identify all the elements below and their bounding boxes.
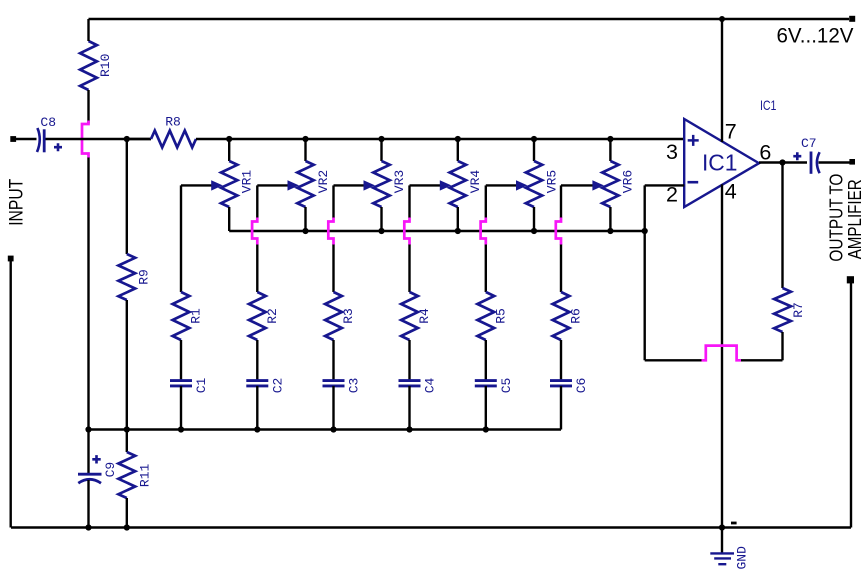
resistor R6 (553, 292, 570, 340)
svg-text:C1: C1 (194, 378, 209, 394)
wiper arrow VR2 (288, 180, 300, 190)
svg-text:R9: R9 (137, 269, 152, 285)
svg-text:VR1: VR1 (240, 170, 255, 194)
wire R1 to C1 (180, 340, 182, 380)
wire C4 to lower rail (408, 386, 410, 430)
resistor R5 (477, 292, 494, 340)
potentiometer VR2 (304, 139, 306, 161)
minus sign inverting input (688, 181, 699, 184)
plus sign of C7 (793, 152, 801, 160)
wire R4 to C4 (408, 340, 410, 380)
magenta hop over feedback bus at R6 column (556, 218, 561, 245)
node feedback bus / inverting column junction (642, 228, 648, 234)
wire R6 to C6 (560, 340, 562, 380)
svg-text:C7: C7 (801, 136, 817, 151)
wire lower rail under RC chains (89, 428, 562, 431)
ground symbol (721, 528, 723, 553)
svg-text:IC1: IC1 (702, 150, 738, 176)
wire C6 to lower rail (560, 386, 562, 430)
resistor R8 (127, 138, 151, 140)
node input line / VR4 top (455, 136, 461, 142)
magenta hop over feedback bus at R4 column (404, 218, 409, 245)
svg-text:4: 4 (725, 180, 737, 204)
magenta hop over pin 4 line on feedback wire (702, 346, 742, 361)
capacitor C3 (323, 379, 345, 382)
capacitor C6 (550, 379, 572, 382)
svg-text:AMPLIFIER: AMPLIFIER (844, 179, 865, 259)
svg-text:3: 3 (666, 140, 678, 164)
potentiometer VR4 (457, 139, 459, 161)
node ground rail / R11 (124, 524, 130, 530)
wiper arrow VR3 (364, 180, 376, 190)
magenta hop over input line at R10 column (82, 121, 89, 158)
resistor R7 (781, 163, 783, 289)
node ground rail / C9 (85, 524, 91, 530)
node feedback bus / VR6 bottom (607, 228, 613, 234)
node lower rail junction (406, 426, 412, 432)
node lower rail junction (254, 426, 260, 432)
output ground terminal (847, 276, 854, 283)
wiper wire VR6 (561, 184, 595, 186)
output terminal (849, 159, 855, 165)
wire input lead (13, 138, 36, 140)
node input line / VR2 top (302, 136, 308, 142)
svg-text:C3: C3 (347, 378, 362, 394)
wire C8 to R9 node (46, 138, 152, 140)
node top rail / pin 7 junction (719, 16, 725, 22)
capacitor C8 (37, 128, 40, 152)
svg-text:GND: GND (734, 546, 749, 570)
svg-text:VR4: VR4 (468, 170, 483, 194)
svg-text:7: 7 (725, 119, 737, 143)
wire bottom ground rail (11, 526, 851, 529)
wire pin 7 supply lead (721, 19, 723, 142)
svg-text:C9: C9 (103, 462, 118, 478)
node input line / VR3 top (378, 136, 384, 142)
plus sign of C9 (92, 455, 100, 463)
wire top supply rail (89, 18, 850, 21)
plus sign non-inverting input (688, 135, 699, 146)
magenta hop over feedback bus at R3 column (328, 218, 333, 245)
wire VR1 wiper drop (180, 185, 182, 292)
svg-text:R5: R5 (493, 308, 508, 324)
resistor R9 (126, 139, 128, 254)
svg-text:R1: R1 (189, 308, 204, 324)
node input line / VR6 top (607, 136, 613, 142)
wire VR6 wiper drop (560, 185, 562, 218)
node feedback bus / VR3 bottom (378, 228, 384, 234)
svg-text:R3: R3 (341, 308, 356, 324)
magenta hop over feedback bus at R2 column (252, 218, 257, 245)
node feedback bus / VR4 bottom (455, 228, 461, 234)
magenta hop over feedback bus at R5 column (481, 218, 486, 245)
wire C3 to lower rail (332, 386, 334, 430)
wire C7 to output terminal (819, 161, 851, 163)
svg-text:VR6: VR6 (621, 170, 636, 193)
svg-text:C5: C5 (499, 378, 514, 394)
svg-text:C8: C8 (40, 115, 56, 130)
node input line / VR1 top (226, 136, 232, 142)
wire VR4 wiper drop (408, 185, 410, 218)
potentiometer VR1 (228, 139, 230, 161)
node output / R7 junction (779, 159, 785, 165)
wire C2 to lower rail (256, 386, 258, 430)
wire C5 to lower rail (485, 386, 487, 430)
plus sign of C8 (54, 143, 62, 151)
capacitor C9 (87, 430, 89, 474)
wire R5 to C5 (485, 340, 487, 380)
node input line / VR5 top (531, 136, 537, 142)
potentiometer VR6 (609, 139, 611, 161)
wire C1 to lower rail (180, 386, 182, 430)
node feedback bus / VR5 bottom (531, 228, 537, 234)
wire VR2 wiper drop (256, 185, 258, 218)
resistor R11 (126, 430, 128, 453)
node lower rail junction (85, 426, 91, 432)
node ground rail / pin 4 (719, 524, 725, 530)
svg-text:VR2: VR2 (316, 170, 331, 193)
svg-text:C2: C2 (270, 378, 285, 394)
svg-text:IC1: IC1 (760, 97, 777, 113)
wire R3 to C3 (332, 340, 334, 380)
wiper wire VR3 (334, 184, 367, 186)
svg-text:R10: R10 (98, 54, 113, 77)
wiper wire VR2 (257, 184, 290, 186)
wire inverting input column (644, 185, 646, 360)
node input/R9 junction (124, 136, 130, 142)
resistor R10 (80, 41, 97, 90)
capacitor C2 (246, 379, 268, 382)
svg-text:VR3: VR3 (392, 170, 407, 193)
wiper arrow VR4 (440, 180, 452, 190)
svg-text:R8: R8 (165, 115, 181, 130)
svg-text:R4: R4 (417, 308, 432, 324)
node lower rail junction (483, 426, 489, 432)
wire R2 to C2 (256, 340, 258, 380)
wire input bus across pot tops (229, 138, 684, 140)
wiper arrow VR5 (516, 180, 528, 190)
wire VR3 wiper drop (332, 185, 334, 218)
svg-text:6V...12V: 6V...12V (777, 24, 855, 48)
capacitor C5 (475, 379, 497, 382)
node lower rail junction (178, 426, 184, 432)
wire left ground lead (9, 261, 11, 528)
resistor R4 (401, 292, 418, 340)
wire feedback from R7 to inverting input (738, 359, 783, 361)
potentiometer VR5 (533, 139, 535, 161)
node lower rail junction (330, 426, 336, 432)
input ground terminal (8, 256, 14, 262)
input terminal (10, 136, 16, 142)
capacitor C7 (810, 152, 813, 174)
wiper wire VR5 (486, 184, 519, 186)
op-amp IC1 triangle (684, 119, 759, 207)
node feedback bus / VR2 bottom (302, 228, 308, 234)
svg-text:R7: R7 (791, 302, 806, 318)
capacitor C1 (170, 379, 192, 382)
wire R10 column below hop down to lower rail (87, 157, 89, 430)
resistor R3 (325, 292, 342, 340)
wire pin 4 lead down to ground rail (721, 184, 723, 527)
svg-text:C4: C4 (423, 378, 438, 394)
svg-text:R6: R6 (569, 308, 584, 324)
svg-text:INPUT: INPUT (5, 179, 27, 226)
svg-text:6: 6 (759, 140, 771, 164)
svg-text:R2: R2 (265, 308, 280, 324)
minus sign near ground junction (731, 522, 737, 525)
wire inverting input lead (645, 184, 685, 186)
resistor R2 (249, 292, 266, 340)
potentiometer VR3 (380, 139, 382, 161)
svg-text:R11: R11 (137, 464, 152, 488)
power terminal 6V...12V (849, 16, 855, 22)
wire op-amp output (759, 161, 807, 163)
wiper arrow VR6 (592, 180, 604, 190)
wire VR5 wiper drop (485, 185, 487, 218)
svg-text:C6: C6 (574, 378, 589, 394)
wiper arrow VR1 (211, 180, 223, 190)
wiper wire VR4 (410, 184, 443, 186)
resistor R1 (173, 292, 190, 340)
wire right ground lead (850, 283, 852, 528)
wire feedback bus under pots (229, 230, 645, 233)
node lower rail junction (124, 426, 130, 432)
svg-text:VR5: VR5 (544, 170, 559, 193)
capacitor C4 (399, 379, 421, 382)
wiper wire VR1 (181, 184, 214, 186)
